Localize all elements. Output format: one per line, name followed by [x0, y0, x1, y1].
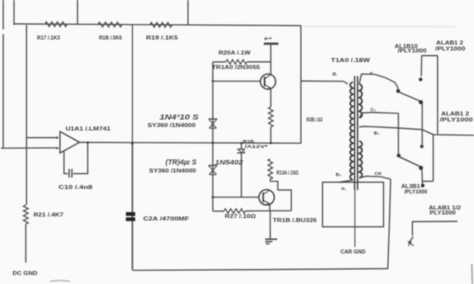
wire collector loop: [278, 190, 292, 211]
wire switch2 feed: [370, 112, 398, 153]
svg-text:−: −: [56, 147, 59, 153]
svg-text:/PLY1000: /PLY1000: [404, 189, 427, 195]
label D1 handwritten: [160, 112, 199, 121]
svg-text:TR1B /.BU326: TR1B /.BU326: [273, 218, 317, 224]
label DC GND: [13, 271, 38, 277]
label Bb: [336, 172, 342, 177]
node base junction: [212, 196, 242, 198]
node output cross: [212, 142, 214, 144]
wire riser 2 top: [77, 0, 79, 25]
wire collector jog: [270, 179, 278, 190]
svg-text:PLY1000: PLY1000: [430, 210, 456, 216]
label AL2B12: [435, 40, 465, 52]
node emitter junction: [270, 142, 272, 144]
wire center leg to car gnd: [354, 190, 356, 247]
transformer core: [355, 76, 358, 190]
capacitor C10: [69, 169, 72, 178]
label D1 printed: [148, 123, 196, 129]
diode D1: [209, 119, 218, 128]
transformer secondary winding 1: [359, 84, 362, 118]
svg-text:R3B /.63: R3B /.63: [307, 117, 323, 123]
wire secondary mid tap C: [359, 113, 370, 119]
wire switch1 feed: [375, 74, 398, 89]
label CAR GND: [341, 249, 366, 255]
label C2A: [143, 216, 190, 222]
node output junction: [87, 142, 89, 144]
resistor R20: [226, 60, 247, 64]
svg-text:TR1A0 /2N3055: TR1A0 /2N3055: [212, 65, 260, 71]
svg-text:B₂: B₂: [374, 131, 379, 136]
ground: [265, 239, 277, 244]
wire rail bracket: [422, 55, 438, 57]
resistor R21: [23, 205, 28, 224]
svg-text:ALAB1 2: ALAB1 2: [436, 40, 463, 46]
power +V bar: [264, 36, 279, 44]
scan edge right: [471, 264, 474, 284]
wire center tap: [359, 125, 375, 128]
svg-text:R1B /.5K6: R1B /.5K6: [99, 36, 122, 42]
svg-text:R13A /.15Ω: R13A /.15Ω: [277, 170, 299, 176]
svg-text:(TR)4µι S: (TR)4µι S: [166, 157, 197, 166]
box rectifier: [323, 182, 384, 227]
svg-text:DC GND: DC GND: [13, 271, 38, 277]
label TR1A: [212, 65, 260, 71]
switch S2 blade: [397, 154, 423, 170]
svg-text:CAR GND: CAR GND: [341, 249, 366, 255]
svg-text:1N5402: 1N5402: [215, 159, 244, 166]
wire C2A column: [131, 25, 134, 270]
wire TR1B emitter drop: [269, 204, 271, 210]
svg-text:C₁: C₁: [371, 107, 376, 112]
label C: [371, 107, 376, 112]
label CH: [375, 171, 382, 176]
label C10: [59, 185, 93, 191]
wire secondary 2 bottom hook: [359, 176, 390, 179]
label Y: [370, 71, 374, 77]
svg-text:B₃: B₃: [336, 172, 342, 177]
wire center tap run: [375, 127, 474, 136]
wire top rail: [14, 24, 301, 26]
svg-text:R19 /.1K5: R19 /.1K5: [146, 36, 178, 42]
wire TR1B base: [242, 196, 259, 198]
wire R20 row: [213, 61, 271, 63]
wire rail drop: [300, 26, 302, 144]
label AL2B mid: [440, 112, 473, 124]
svg-text:1N4³10 S: 1N4³10 S: [160, 112, 199, 121]
svg-text:CH: CH: [375, 171, 382, 176]
wire riser 3 top: [187, 0, 189, 25]
label R19: [146, 36, 178, 42]
resistor R13A: [268, 159, 273, 179]
node contact S1: [419, 78, 423, 82]
label U1A: [66, 126, 111, 132]
node contact S2: [420, 145, 423, 148]
op-amp U1A: [55, 132, 79, 154]
scan smudge bottom left: [50, 281, 70, 282]
svg-text:B.: B.: [333, 71, 339, 77]
wire secondary top tap: [359, 74, 374, 84]
svg-text:/PLY1000: /PLY1000: [435, 47, 465, 53]
wire left column: [26, 25, 28, 205]
label zener top: [243, 139, 268, 150]
svg-text:R17 /.1K3: R17 /.1K3: [37, 36, 60, 42]
label box R1: [342, 186, 347, 191]
wire rail A seg2: [421, 104, 423, 145]
resistor R19: [150, 23, 172, 28]
wire left rail: [2, 0, 4, 148]
svg-text:/Λ12V*: /Λ12V*: [245, 144, 268, 150]
label R13A: [277, 170, 299, 176]
label zener handwritten: [215, 159, 244, 166]
wire box right drop: [388, 179, 391, 269]
wire TR1A emitter: [270, 89, 272, 108]
resistor R emitter TR1A: [269, 107, 274, 127]
transistor TR1A: [260, 74, 275, 89]
wire op-amp output: [80, 141, 302, 144]
label R27: [225, 214, 257, 220]
wire rail B: [437, 56, 439, 134]
wire bottom rail: [132, 269, 388, 271]
svg-text:R₁: R₁: [342, 186, 347, 191]
label transformer T1A0: [331, 58, 371, 64]
label R17: [37, 36, 60, 42]
label R21: [34, 212, 64, 218]
transformer secondary winding 2: [359, 141, 362, 178]
wire rail C: [422, 135, 433, 182]
wire below R21 to DC GND: [25, 224, 27, 263]
label ALAB1 12: [429, 206, 461, 217]
label R18: [99, 36, 122, 42]
wire ground drop: [269, 211, 271, 239]
wire rail A seg1: [420, 56, 422, 77]
label AL3B1: [401, 184, 427, 195]
wire feedback loop: [64, 143, 88, 174]
label D2 printed: [149, 169, 196, 175]
wire spare switch lead: [412, 221, 457, 235]
label AL1B10: [395, 44, 427, 55]
svg-text:SY360 /1N4000: SY360 /1N4000: [149, 169, 196, 175]
resistor R27: [224, 209, 246, 213]
transformer primary winding: [350, 82, 353, 180]
node zener top: [240, 142, 242, 144]
svg-text:R27 /.10Ω: R27 /.10Ω: [225, 214, 257, 220]
svg-text:T1A0 /.18W: T1A0 /.18W: [331, 58, 371, 64]
wire bottom row: [213, 210, 291, 213]
svg-text:e+: e+: [264, 36, 272, 41]
wire op-amp inverting input: [1, 147, 59, 149]
svg-text:U1A1 /.LM741: U1A1 /.LM741: [66, 126, 111, 132]
switch spare blade: [408, 237, 414, 246]
svg-text:+: +: [55, 136, 58, 142]
label B.: [333, 71, 339, 77]
svg-text:/PLY1000: /PLY1000: [440, 118, 473, 124]
label R3B: [307, 117, 323, 123]
capacitor C2A: [126, 212, 135, 221]
diode D2: [209, 165, 218, 174]
resistor R17: [45, 22, 67, 27]
zener ZD: [237, 149, 245, 153]
wire zener column: [240, 143, 242, 197]
transistor TR1B: [259, 190, 274, 205]
svg-text:SY360 /1N4000: SY360 /1N4000: [148, 123, 196, 129]
wire primary top hook: [0, 0, 1, 1]
svg-text:R21 /.4K7: R21 /.4K7: [34, 212, 64, 218]
wire primary bottom hook: [340, 180, 353, 182]
scan ghost top rail: [303, 25, 456, 28]
resistor R18: [98, 22, 122, 27]
switch S1 blade: [396, 89, 423, 104]
svg-text:C10 /.4n8: C10 /.4n8: [59, 185, 93, 191]
wire riser 1 top: [13, 0, 15, 25]
label R20A: [219, 50, 252, 56]
svg-text:/PLY1000: /PLY1000: [398, 49, 427, 55]
wire to transformer primary: [301, 81, 348, 84]
label D2 handwritten: [166, 157, 197, 166]
node base tap TR1A: [212, 80, 214, 82]
node rail A bottom: [421, 184, 425, 188]
wire diode column: [212, 62, 214, 211]
label B,: [374, 131, 379, 136]
wire TR1A base: [213, 80, 261, 82]
svg-text:C2A /4700MF: C2A /4700MF: [143, 216, 190, 222]
wire non-inverting input: [27, 137, 59, 139]
wire emitter resistor to output wire: [270, 127, 272, 143]
svg-text:R20A /.1W: R20A /.1W: [219, 50, 252, 56]
label TR1B: [273, 218, 317, 224]
wire TR1A collector: [270, 44, 272, 75]
wire rail A seg3: [421, 170, 424, 185]
